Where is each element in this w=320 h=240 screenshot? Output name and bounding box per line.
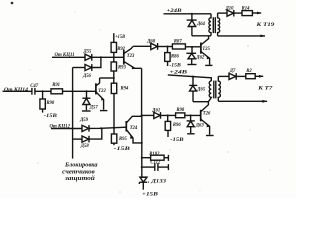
transistor Т23 xyxy=(124,46,142,69)
svg-text:R96: R96 xyxy=(173,123,181,128)
diode Д133 zener xyxy=(139,172,166,190)
node junction bus/91 xyxy=(72,90,74,92)
wire output1 top with arrow xyxy=(252,12,261,14)
wire Д58 anode xyxy=(73,138,82,140)
node output К Т7 xyxy=(257,86,273,92)
node junction R102 xyxy=(141,157,143,159)
diode Д55 xyxy=(83,50,93,61)
svg-text:-15В: -15В xyxy=(114,147,131,152)
svg-text:R14: R14 xyxy=(242,6,250,11)
net -15В below R86 xyxy=(169,63,181,68)
wire +24B rail xyxy=(164,13,212,15)
diode Д59 xyxy=(79,118,89,132)
svg-text:Т25: Т25 xyxy=(202,47,210,52)
net +24В second xyxy=(170,70,189,75)
diode Д56 xyxy=(82,64,92,79)
svg-text:R98: R98 xyxy=(176,108,184,113)
wire R94 down to T24 base line xyxy=(113,94,115,135)
node junction Д62 xyxy=(191,46,193,48)
wire primary1 bottom rail xyxy=(192,35,211,37)
svg-text:Д60: Д60 xyxy=(146,39,156,44)
svg-text:Д65: Д65 xyxy=(196,87,206,92)
svg-text:Т22: Т22 xyxy=(98,89,106,94)
node junction R94/R95 on base line xyxy=(113,127,115,129)
wire D56 cathode jog up xyxy=(92,57,101,67)
wire R93 to R94 xyxy=(113,71,115,83)
svg-text:-15В: -15В xyxy=(44,114,58,119)
speckles xyxy=(11,2,271,193)
net +15В top xyxy=(115,35,125,40)
diode Д10 xyxy=(225,6,235,16)
resistor R94 xyxy=(111,83,129,93)
diode Д57 zener xyxy=(82,91,98,111)
node junction R96 xyxy=(167,114,169,116)
transistor Т25 xyxy=(201,36,213,66)
svg-text:+15В: +15В xyxy=(115,35,125,40)
wire secondary2 top to Д7 xyxy=(218,75,229,77)
svg-text:Д58: Д58 xyxy=(80,144,90,149)
label Блокировка счетчиков защитой xyxy=(62,162,98,183)
resistor R96 xyxy=(165,115,181,137)
resistor R87 xyxy=(172,39,185,49)
wire R92 to node A xyxy=(113,52,115,62)
resistor R98 xyxy=(176,108,185,118)
diode Д65 xyxy=(189,77,206,102)
svg-text:С47: С47 xyxy=(30,84,38,89)
wire input3 to Д59 xyxy=(51,128,82,130)
svg-text:-15В: -15В xyxy=(170,138,184,143)
svg-text:Д59: Д59 xyxy=(79,118,89,123)
transformer Тр2 primary winding xyxy=(208,81,211,102)
svg-text:R91: R91 xyxy=(52,83,60,88)
svg-text:Т23: Т23 xyxy=(127,54,135,59)
net +15В bottom xyxy=(142,192,158,198)
resistor R14 xyxy=(242,6,253,15)
wire emitter bus down xyxy=(141,115,143,172)
wire T23 emitter vertical bus xyxy=(141,68,143,115)
transformer Тр1 primary winding xyxy=(209,14,211,36)
svg-text:R2: R2 xyxy=(246,69,252,74)
node junction Д63 xyxy=(190,114,192,116)
wire D56 anode xyxy=(73,67,85,69)
wire primary2 bottom line xyxy=(193,101,208,103)
net -15В below R90 xyxy=(44,114,58,119)
diode Д64 xyxy=(187,14,206,36)
svg-text:-15В: -15В xyxy=(169,63,181,68)
svg-text:R102: R102 xyxy=(149,152,160,157)
capacitor С47 xyxy=(30,84,38,95)
svg-text:R93: R93 xyxy=(118,65,126,70)
node junction Д65 xyxy=(192,76,194,78)
net +24В top xyxy=(166,9,182,14)
node junction D57 xyxy=(85,90,87,92)
svg-text:Т24: Т24 xyxy=(130,126,138,131)
wire Д58 cathode riser xyxy=(89,128,102,139)
transistor Т24 xyxy=(126,116,142,143)
svg-text:Д63: Д63 xyxy=(195,123,205,128)
diode Д63 xyxy=(187,115,205,133)
svg-text:R86: R86 xyxy=(171,54,179,59)
wire output1 bottom with arrow xyxy=(218,35,265,37)
resistor R86 xyxy=(165,47,180,67)
transistor Т26 xyxy=(201,102,214,136)
resistor R92 xyxy=(111,42,126,52)
node junction C47/R90 xyxy=(42,90,44,92)
svg-text:К Т19: К Т19 xyxy=(255,22,275,28)
diode Д60 xyxy=(146,39,157,49)
wire Д61 to T26 base xyxy=(161,114,201,116)
diode Д61 xyxy=(151,108,160,118)
wire input2 to C47 xyxy=(3,90,32,92)
svg-text:R87: R87 xyxy=(174,39,182,44)
node junction Д58 riser xyxy=(100,127,102,129)
wire Д7 to R2 xyxy=(236,75,246,77)
transformer Тр2 secondary winding xyxy=(218,76,220,101)
svg-text:Д61: Д61 xyxy=(151,108,160,113)
wire left vertical bus xyxy=(72,68,74,159)
wire Д10 to R14 xyxy=(234,12,242,14)
svg-text:Д55: Д55 xyxy=(83,50,93,55)
transistor Т22 xyxy=(96,78,108,111)
svg-text:Д10: Д10 xyxy=(225,6,235,11)
node junction bus/input3 xyxy=(72,127,74,129)
resistor R91 xyxy=(51,83,63,94)
svg-text:R94: R94 xyxy=(121,86,129,91)
wire C47 to R91 xyxy=(35,90,51,92)
wire Д59 cathode / T24 base line xyxy=(89,127,126,128)
wire output2 bottom with arrow xyxy=(218,100,267,102)
capacitor С112 xyxy=(142,161,169,171)
wire output2 top with arrow xyxy=(255,75,263,77)
svg-text:К Т7: К Т7 xyxy=(257,86,273,92)
wire R87 to T25 base xyxy=(185,46,201,48)
node junction R86 xyxy=(166,45,168,47)
wire +24B(2) to transformer 2 xyxy=(168,75,212,81)
net -15В below R96 xyxy=(170,138,184,143)
resistor R2 xyxy=(246,69,255,79)
transformer Тр1 secondary winding xyxy=(218,13,220,36)
wire branch to T22 collector xyxy=(100,77,114,79)
svg-text:+15В: +15В xyxy=(142,192,158,198)
wire +15B down to R92 xyxy=(113,33,115,42)
svg-text:Д57: Д57 xyxy=(89,106,99,111)
node output К Т19 xyxy=(255,22,275,28)
wire D55 cathode to node A xyxy=(92,56,124,58)
diode Д7 xyxy=(229,69,236,80)
node input От КЦ12 xyxy=(50,124,71,130)
svg-text:Д62: Д62 xyxy=(195,55,205,60)
diode Д62 xyxy=(186,47,205,65)
wire secondary1 top to Д10 xyxy=(218,12,227,14)
wire input1 to D55 xyxy=(52,56,85,58)
wire Д60 to R87 xyxy=(158,46,173,48)
svg-text:защитой: защитой xyxy=(64,175,95,182)
node junction Д64 xyxy=(191,13,193,15)
node junction at T24 collector xyxy=(141,114,143,116)
svg-text:, Д133: , Д133 xyxy=(147,178,167,184)
node junction D55/D56 xyxy=(100,56,102,58)
wire R91 to T22 base xyxy=(63,90,96,92)
node junction T24 emitter xyxy=(141,142,143,144)
svg-text:Д64: Д64 xyxy=(196,22,206,27)
resistor R93 xyxy=(111,62,126,71)
node junction C112 xyxy=(141,166,143,168)
resistor R95 xyxy=(111,134,127,145)
svg-text:R95: R95 xyxy=(119,137,127,142)
net -15В below R95 xyxy=(114,147,131,152)
transformer Тр1 core xyxy=(212,17,214,33)
node input От КЦ14 xyxy=(4,87,28,93)
transformer Тр2 core xyxy=(213,81,215,99)
svg-text:Д56: Д56 xyxy=(82,74,92,79)
svg-text:С112: С112 xyxy=(150,161,161,166)
svg-text:Т26: Т26 xyxy=(203,112,211,117)
wire T23 collector line to Д60 xyxy=(133,45,151,47)
node input От КЦ11 xyxy=(55,52,75,58)
wire Д61 line left xyxy=(142,114,154,116)
svg-text:R90: R90 xyxy=(46,101,54,106)
svg-text:Д7: Д7 xyxy=(229,69,236,74)
resistor R102 xyxy=(142,152,169,161)
resistor R90 xyxy=(40,91,55,112)
node A junction xyxy=(113,56,115,58)
diode Д58 xyxy=(80,136,90,149)
